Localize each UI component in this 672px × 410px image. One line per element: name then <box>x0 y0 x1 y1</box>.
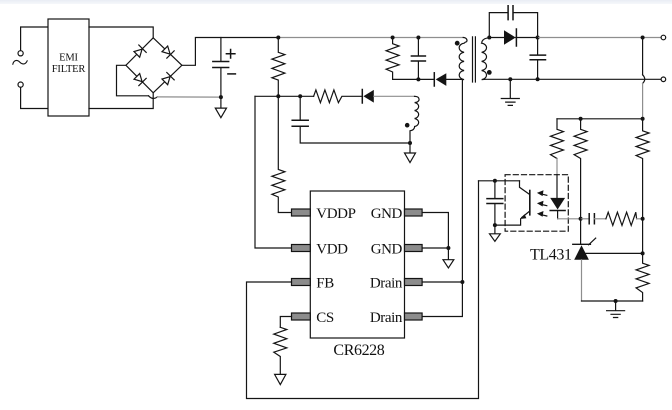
capacitor C6 FB filter leads <box>494 181 496 225</box>
node VDD cap junction <box>298 94 302 98</box>
node B TL431 cathode junction <box>579 217 583 221</box>
wire drain bus <box>461 79 463 282</box>
AC tilde symbol <box>13 60 27 64</box>
node secondary top junction <box>487 36 491 40</box>
wire D2 to aux winding (gray) <box>374 95 415 97</box>
node R1/R3 junction <box>276 94 280 98</box>
capacitor C7 compensation plates <box>589 214 594 224</box>
earth ground secondary <box>501 79 519 105</box>
capacitor C4 diode snubber leads <box>489 13 537 38</box>
wire HV top rail (gray) <box>278 37 463 39</box>
capacitor C1 plates <box>213 62 229 68</box>
wire TL431 reference to node D <box>586 252 643 254</box>
wire GND2 to ground <box>422 247 448 249</box>
pin GND 2 <box>405 245 423 252</box>
pin Drain 1 <box>405 279 423 286</box>
node output cap bottom <box>536 77 540 81</box>
ground arrow IC <box>443 260 454 268</box>
svg-text:EMI: EMI <box>59 52 78 63</box>
ground arrow CS <box>275 374 286 384</box>
capacitor C2 bottom lead to aux ground <box>300 127 410 143</box>
wire primary ground rail (gray) <box>157 96 219 98</box>
wire bridge negative return <box>117 65 149 96</box>
bridge diode D-A top-left <box>133 45 146 58</box>
transformer T1 core <box>473 37 476 82</box>
capacitor C4 plates <box>508 6 513 20</box>
pin CS <box>292 313 311 320</box>
wire secondary to rectifier <box>489 37 504 39</box>
wire clamp to diode <box>418 78 434 80</box>
IC U1 CR6228 body <box>310 191 404 338</box>
wire divider rail <box>557 118 643 120</box>
wire comp cap to resistor (gray) <box>594 218 606 220</box>
svg-text:VDD: VDD <box>316 241 348 257</box>
node secondary control ground <box>614 299 618 303</box>
diode D4 cathode bar <box>515 29 517 46</box>
wire Drain2 to bus <box>422 282 462 317</box>
node GND junction <box>446 246 450 250</box>
svg-text:VDDP: VDDP <box>316 206 355 222</box>
wire IC ground stem <box>447 248 449 260</box>
resistor R2 VDD series <box>314 90 362 103</box>
opto LED cathode bar <box>550 210 565 212</box>
wire V+ sense drop upper <box>642 38 644 75</box>
transformer T1 primary winding <box>459 38 467 80</box>
node opto cap top <box>493 179 497 183</box>
bridge diode D-C bottom-left <box>133 73 146 86</box>
capacitor C2 plates <box>292 120 308 126</box>
diode D3 clamp cathode bar <box>433 73 435 86</box>
capacitor C1 plus sign <box>226 50 235 59</box>
wire FB to opto collector <box>479 180 520 182</box>
pin GND 1 <box>405 209 423 216</box>
node secondary ground junction <box>508 77 512 81</box>
resistor R9 divider lower <box>636 253 649 301</box>
opto transistor collector <box>520 181 530 194</box>
TL431 U3 cathode bar <box>573 243 591 245</box>
wire opto ground stem <box>494 225 496 234</box>
opto LED cathode lead <box>557 211 559 219</box>
node snubber resistor top <box>391 36 395 40</box>
opto transistor emitter arrowhead <box>520 214 527 219</box>
node drain junction <box>460 280 464 284</box>
capacitor C1 bottom lead <box>220 68 222 108</box>
resistor R1 startup upper <box>272 38 285 97</box>
svg-text:GND: GND <box>371 206 403 222</box>
opto transistor emitter <box>522 211 530 218</box>
diode D2 aux <box>363 90 373 103</box>
wire comp resistor to node C (gray) <box>637 218 643 220</box>
transformer T1 secondary phase dot <box>487 70 492 75</box>
resistor R8 compensation <box>606 212 637 225</box>
svg-text:FB: FB <box>316 275 334 291</box>
capacitor C3 clamp top lead <box>417 38 419 56</box>
wire hop over return rail <box>643 75 645 84</box>
opto light arrow 2 <box>542 205 547 206</box>
wire node B to comp cap (gray) <box>581 218 589 220</box>
pin VDDP <box>292 209 311 216</box>
capacitor C1 bulk top lead <box>220 38 222 62</box>
wire output return rail <box>485 78 661 80</box>
wire VDD node rail <box>255 95 314 97</box>
capacitor C5 plates <box>530 55 545 60</box>
aux winding L1 <box>410 96 419 143</box>
wire VDD bus to pin <box>255 96 292 248</box>
EMI filter block <box>48 19 89 116</box>
opto light arrow 1 head <box>537 190 544 196</box>
resistor R3 to VDDP <box>272 96 292 212</box>
svg-text:Drain: Drain <box>370 275 403 291</box>
wire bridge positive output <box>182 38 278 66</box>
wire FB loop <box>247 181 479 399</box>
diode D3 clamp <box>436 73 447 86</box>
opto light arrow 3 head <box>537 211 544 217</box>
wire LED to node B (gray) <box>558 218 581 220</box>
node output cap top <box>536 36 540 40</box>
diode D4 output rectifier <box>504 30 516 44</box>
wire R5 to LED (gray) <box>556 159 558 175</box>
diode D2 aux cathode bar <box>361 90 363 104</box>
node snubber cap top <box>416 36 420 40</box>
node aux ground junction <box>408 141 412 145</box>
node divider rail Rb <box>579 117 583 121</box>
optocoupler U2 dashed box <box>505 175 568 232</box>
AC source terminal bottom <box>18 82 23 87</box>
svg-text:FILTER: FILTER <box>52 64 86 75</box>
opto light arrow 1 <box>542 194 547 195</box>
ground arrow opto <box>490 234 501 242</box>
transformer T1 secondary winding <box>482 38 490 80</box>
output terminal V+ <box>661 35 666 40</box>
opto transistor base bar <box>529 191 531 215</box>
wire aux ground stem <box>409 143 411 153</box>
wire EMI to bridge bottom <box>89 93 153 109</box>
svg-text:Drain: Drain <box>370 310 403 326</box>
TL431 U3 body <box>574 245 589 260</box>
node opto cap bottom <box>493 223 497 227</box>
resistor R7 divider upper <box>636 119 649 219</box>
capacitor C1 minus sign <box>228 73 236 75</box>
wire clamp diode to drain <box>446 78 462 80</box>
node clamp junction <box>416 77 420 81</box>
capacitor C5 bottom lead <box>537 60 539 79</box>
wire output V+ rail (gray) <box>538 37 662 39</box>
node top rail startup resistor junction <box>276 36 280 40</box>
resistor R10 current sense <box>274 327 287 374</box>
resistor R4 clamp <box>386 38 418 80</box>
pin FB <box>292 279 311 286</box>
pin Drain 2 <box>405 313 423 320</box>
wire AC line input bottom <box>21 87 48 108</box>
bridge diode D-B top-right <box>161 45 174 58</box>
wire V+ sense drop lower (gray) <box>642 83 644 118</box>
aux winding phase dot <box>405 123 410 128</box>
svg-text:TL431: TL431 <box>530 247 572 264</box>
wire AC line input top <box>21 27 48 51</box>
wire EMI to bridge top <box>89 27 153 38</box>
bridge rectifier BR1 diamond <box>126 38 182 93</box>
resistor R6 TL431 cathode <box>574 119 587 219</box>
wire CS pin lead <box>280 317 291 328</box>
svg-text:CR6228: CR6228 <box>333 342 384 359</box>
capacitor C5 output top lead <box>537 38 539 55</box>
opto light arrow 3 <box>542 215 547 216</box>
earth ground TL431 <box>607 301 625 318</box>
node C divider mid junction <box>641 217 645 221</box>
TL431 U3 reference tick <box>589 238 596 245</box>
node bulk cap ground junction <box>219 95 223 99</box>
node D reference junction <box>641 251 645 255</box>
opto light arrow 2 head <box>537 201 544 207</box>
ground arrow aux winding <box>405 153 416 163</box>
wire GND1 to ground <box>422 213 448 249</box>
wire node C to node D <box>642 219 644 254</box>
pin VDD <box>292 245 311 252</box>
node divider rail right <box>641 117 645 121</box>
ground arrow primary (bulk cap) <box>215 108 226 118</box>
opto emitter lead <box>495 219 521 225</box>
transformer T1 primary phase dot <box>455 41 460 46</box>
capacitor C3 bottom lead <box>417 61 419 79</box>
output terminal return <box>661 77 666 82</box>
wire Drain1 to bus <box>422 281 462 283</box>
svg-text:CS: CS <box>316 310 334 326</box>
AC source terminal top <box>18 51 23 56</box>
wire hop over bridge bottom lead <box>149 96 158 99</box>
TL431 cathode lead <box>580 219 582 245</box>
resistor R5 opto bias <box>551 119 564 159</box>
opto LED D5 <box>550 198 565 210</box>
bridge diode D-D bottom-right <box>161 73 174 86</box>
capacitor C2 VDD top lead <box>299 96 301 120</box>
capacitor C3 plates <box>411 56 425 61</box>
wire TL431 anode (gray) <box>581 260 583 301</box>
wire rectifier to output cap <box>516 37 538 39</box>
opto LED anode lead <box>556 175 558 198</box>
svg-text:GND: GND <box>371 241 403 257</box>
wire TL431 anode to R9 bottom <box>582 300 643 302</box>
capacitor C6 plates <box>487 199 503 204</box>
node V+ feedback tap <box>641 36 645 40</box>
